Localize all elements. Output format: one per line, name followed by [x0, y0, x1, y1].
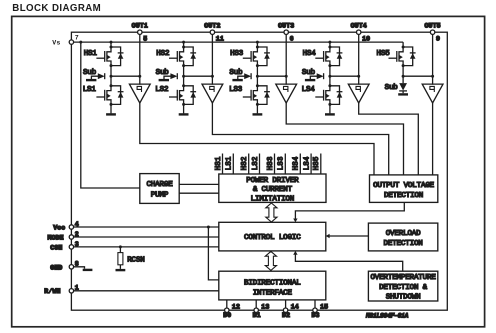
IC boundary box	[71, 32, 447, 310]
charge pump block	[140, 174, 179, 204]
pin OUT3 circle	[284, 30, 288, 34]
svg-text:LS4: LS4	[303, 156, 311, 170]
svg-text:HS3: HS3	[230, 50, 244, 58]
wire cell2 mid trunk	[183, 66, 185, 86]
node Vcc tap dot	[207, 226, 210, 229]
svg-text:1: 1	[75, 285, 79, 292]
svg-text:POWER DRIVER: POWER DRIVER	[246, 177, 299, 185]
wire A3 output to detection	[286, 103, 403, 175]
wire cell4 source to ground	[329, 104, 331, 113]
svg-text:CHARGE: CHARGE	[146, 181, 173, 189]
transistor HS1	[96, 46, 123, 68]
wire cell3 source to ground	[256, 104, 258, 113]
wire A1 output to detection	[140, 103, 374, 175]
wire D1 stub	[255, 300, 257, 308]
svg-text:HS5: HS5	[377, 50, 391, 58]
wire R/WN to bidirectional interface	[71, 290, 218, 292]
wire OUT2 vertical	[211, 34, 213, 84]
wire cell2 trunk	[183, 42, 185, 47]
pin OUT1 circle	[138, 30, 142, 34]
svg-text:CONTROL LOGIC: CONTROL LOGIC	[244, 234, 301, 242]
svg-text:Sub: Sub	[302, 69, 315, 77]
svg-text:3: 3	[75, 241, 79, 248]
wire cell1 trunk	[110, 42, 112, 47]
svg-text:9: 9	[436, 35, 440, 42]
svg-text:PUMP: PUMP	[151, 192, 169, 200]
wire Vcc to control logic	[71, 226, 218, 228]
svg-text:HS1: HS1	[215, 156, 223, 170]
wire gate stub LS2	[259, 154, 261, 175]
wire cell5 trunk to sub diode	[402, 66, 404, 84]
op-amp buffer A5	[422, 84, 443, 103]
wire gate stub HS1	[222, 154, 224, 175]
wire gate stub LS4	[310, 154, 312, 175]
wire OUT3 vertical	[285, 34, 287, 84]
pin OUT4 circle	[357, 30, 361, 34]
svg-text:D2: D2	[282, 312, 290, 319]
wire Vcc tap to bidirectional interface	[208, 227, 218, 280]
substrate diode Sub cell3	[232, 73, 251, 80]
ground cell2	[179, 113, 189, 115]
op-amp buffer A1	[129, 84, 150, 103]
wire cell5 trunk	[402, 42, 404, 47]
svg-text:LS1: LS1	[226, 156, 234, 170]
wire output voltage detection to control logic	[295, 202, 404, 218]
svg-text:OUTPUT VOLTAGE: OUTPUT VOLTAGE	[373, 182, 435, 190]
svg-text:7: 7	[75, 34, 79, 41]
wire Sub node to OUT4	[330, 75, 359, 77]
svg-text:14: 14	[291, 303, 299, 310]
wire cell4 mid trunk	[329, 66, 331, 86]
wire A5 output to detection	[432, 103, 434, 175]
wire gate stub HS3	[274, 154, 276, 175]
pin R/WN circle	[69, 289, 73, 293]
ground RCSN	[116, 269, 126, 271]
svg-text:LS3: LS3	[229, 86, 243, 94]
svg-text:HS3: HS3	[267, 156, 275, 170]
wire cell1 source to ground	[110, 104, 112, 113]
wire A4 output to detection	[359, 103, 419, 175]
wire D0 stub	[226, 300, 228, 308]
wire cell4 trunk	[329, 42, 331, 47]
wire cell1 mid trunk	[110, 66, 112, 86]
svg-text:R/WN: R/WN	[44, 288, 60, 295]
svg-text:SHUTDOWN: SHUTDOWN	[386, 293, 421, 301]
svg-text:HS4: HS4	[303, 50, 317, 58]
svg-text:15: 15	[320, 303, 328, 310]
wire cell2 source to ground	[183, 104, 185, 113]
pin D2 circle	[283, 308, 287, 312]
svg-text:& CURRENT: & CURRENT	[253, 186, 293, 194]
pin Vs circle	[69, 40, 73, 44]
svg-text:INTERFACE: INTERFACE	[253, 290, 293, 298]
svg-text:HS5: HS5	[313, 156, 321, 170]
control logic block	[219, 222, 326, 251]
double arrow power driver / control logic	[266, 203, 277, 222]
pin D1 circle	[254, 308, 258, 312]
wire GND stub	[71, 267, 84, 269]
wire gate stub LS1	[232, 154, 234, 175]
svg-text:12: 12	[232, 303, 240, 310]
svg-text:LS1: LS1	[83, 86, 97, 94]
svg-text:Sub: Sub	[385, 84, 398, 92]
wire Sub node to OUT5	[403, 75, 433, 77]
svg-text:DETECTION: DETECTION	[384, 240, 423, 248]
svg-text:DETECTION &: DETECTION &	[379, 284, 428, 292]
svg-text:13: 13	[261, 303, 269, 310]
svg-text:DETECTION: DETECTION	[384, 192, 423, 200]
svg-text:OUT2: OUT2	[204, 23, 220, 30]
svg-text:4: 4	[75, 221, 79, 228]
pin MODE circle	[69, 235, 73, 239]
svg-text:LS4: LS4	[302, 86, 316, 94]
wire gate stub HS2	[248, 154, 250, 175]
pin OUT2 circle	[210, 30, 214, 34]
svg-text:Vcc: Vcc	[53, 224, 65, 231]
overtemperature detection block	[368, 271, 437, 301]
wire overload detection to control logic	[330, 235, 369, 237]
wire OUT4 vertical	[358, 34, 360, 84]
pin CSN circle	[69, 245, 73, 249]
svg-text:OVERLOAD: OVERLOAD	[386, 230, 421, 238]
substrate diode Sub cell2	[159, 73, 178, 80]
node rail tap dot cell3	[256, 41, 259, 44]
pin D3 circle	[313, 308, 317, 312]
svg-text:D0: D0	[223, 312, 231, 319]
svg-text:Sub: Sub	[229, 69, 242, 77]
svg-text:BIDIRECTIONAL: BIDIRECTIONAL	[244, 280, 301, 288]
wire D2 stub	[285, 300, 287, 308]
svg-text:RCSN: RCSN	[127, 256, 144, 264]
ground cell4	[325, 113, 335, 115]
svg-text:BLOCK DIAGRAM: BLOCK DIAGRAM	[12, 3, 101, 14]
svg-text:11: 11	[216, 35, 224, 42]
resistor RCSN	[119, 247, 121, 253]
pin D0 circle	[225, 308, 229, 312]
node junction dot Vs/left-rail	[79, 41, 82, 44]
wire charge pump to power driver (2 lines)	[179, 184, 219, 193]
svg-text:CSN: CSN	[50, 244, 62, 251]
wire OUT5 vertical	[432, 34, 434, 84]
svg-text:M91LS94F-01A: M91LS94F-01A	[365, 312, 409, 319]
svg-text:Sub: Sub	[156, 69, 169, 77]
wire Sub node to OUT1	[111, 75, 140, 77]
wire D3 stub	[314, 300, 316, 308]
wire gate stub HS4	[299, 154, 301, 175]
wire gate stub LS3	[284, 154, 286, 175]
ground cell3	[253, 113, 263, 115]
svg-text:D1: D1	[253, 312, 261, 319]
svg-text:2: 2	[75, 231, 79, 238]
svg-text:LS2: LS2	[155, 86, 168, 94]
transistor HS2	[169, 46, 196, 68]
node rail tap dot cell1	[110, 41, 113, 44]
svg-text:6: 6	[290, 35, 294, 42]
svg-text:OUT5: OUT5	[424, 23, 440, 30]
output voltage detection block	[370, 175, 438, 203]
svg-text:HS2: HS2	[241, 156, 249, 170]
wire cell3 trunk	[256, 42, 258, 47]
transistor LS1	[96, 84, 123, 106]
svg-text:LIMITATION: LIMITATION	[251, 195, 295, 203]
transistor LS3	[243, 84, 270, 106]
pin Vcc circle	[69, 225, 73, 229]
ground cell5	[398, 93, 408, 95]
svg-text:LS2: LS2	[252, 156, 260, 170]
svg-text:OUT1: OUT1	[132, 23, 148, 30]
wire left rail from Vs to charge pump	[81, 42, 140, 188]
svg-text:Sub: Sub	[83, 69, 96, 77]
svg-text:MODE: MODE	[48, 234, 64, 241]
ground cell1	[106, 113, 116, 115]
substrate diode Sub cell1	[86, 73, 105, 80]
svg-text:Vs: Vs	[52, 39, 60, 46]
svg-text:HS4: HS4	[293, 156, 301, 170]
transistor LS4	[315, 84, 342, 106]
overload detection block	[368, 223, 437, 251]
wire A2 output to detection	[212, 103, 388, 175]
pin GND circle	[69, 265, 73, 269]
wire Sub node to OUT3	[257, 75, 286, 77]
node rail tap dot cell4	[328, 41, 331, 44]
node Vs supply rail	[71, 41, 403, 43]
svg-text:OUT4: OUT4	[351, 23, 367, 30]
transistor HS4	[315, 46, 342, 68]
transistor LS2	[169, 84, 196, 106]
svg-text:HS2: HS2	[156, 50, 169, 58]
bidirectional interface block	[219, 271, 326, 300]
transistor HS5	[389, 46, 416, 68]
svg-text:OVERTEMPERATURE: OVERTEMPERATURE	[370, 274, 436, 282]
wire Sub node to OUT2	[184, 75, 213, 77]
wire MODE to control logic	[71, 236, 218, 238]
svg-text:HS1: HS1	[84, 50, 98, 58]
svg-text:10: 10	[362, 35, 370, 42]
pin OUT5 circle	[430, 30, 434, 34]
wire overtemperature block to control logic	[295, 254, 402, 271]
svg-text:GND: GND	[50, 264, 62, 271]
wire CSN to control logic	[71, 246, 218, 248]
svg-text:D3: D3	[311, 312, 319, 319]
double arrow control logic / bidirectional interface	[265, 251, 276, 270]
svg-text:LS3: LS3	[278, 156, 286, 170]
node rail tap dot cell2	[182, 41, 185, 44]
substrate diode Sub cell5	[399, 83, 407, 90]
svg-text:5: 5	[143, 35, 147, 42]
op-amp buffer A3	[276, 84, 297, 103]
svg-text:OUT3: OUT3	[278, 23, 294, 30]
power driver block	[219, 174, 326, 202]
transistor HS3	[243, 46, 270, 68]
op-amp buffer A4	[348, 84, 369, 103]
op-amp buffer A2	[202, 84, 223, 103]
wire OUT1 vertical	[139, 34, 141, 84]
substrate diode Sub cell4	[305, 73, 324, 80]
wire cell3 mid trunk	[256, 66, 258, 86]
ground GND pin	[83, 269, 93, 271]
wire gate stub HS5	[320, 154, 322, 175]
